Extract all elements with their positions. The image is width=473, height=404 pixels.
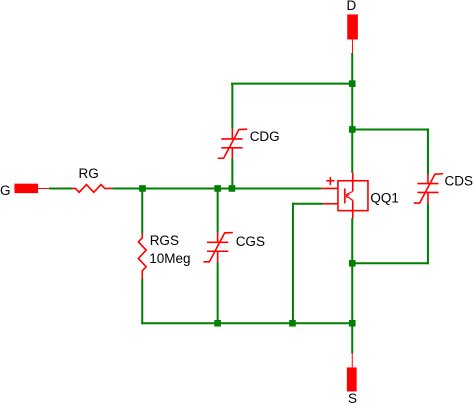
svg-text:CGS: CGS	[236, 234, 265, 249]
svg-text:10Meg: 10Meg	[149, 251, 190, 266]
svg-text:RG: RG	[79, 166, 99, 181]
svg-text:CDS: CDS	[445, 174, 473, 189]
svg-text:QQ1: QQ1	[370, 190, 399, 205]
svg-text:G: G	[0, 183, 11, 198]
svg-text:S: S	[348, 391, 357, 404]
svg-text:CDG: CDG	[250, 129, 280, 144]
svg-text:RGS: RGS	[150, 233, 179, 248]
svg-text:D: D	[347, 0, 357, 13]
